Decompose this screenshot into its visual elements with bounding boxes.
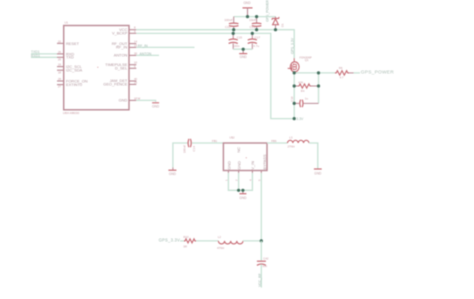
svg-text:D1: D1 [280, 23, 284, 27]
svg-text:C17: C17 [255, 35, 261, 39]
wire RF_IN [136, 46, 194, 48]
svg-text:100nF: 100nF [182, 145, 186, 154]
svg-text:GND: GND [226, 161, 231, 170]
wire U2 output to inductor [267, 142, 288, 144]
wire U1 GND pin to ground [136, 100, 155, 102]
capacitor C42 10u [257, 257, 269, 268]
svg-text:V_IN: V_IN [250, 161, 255, 170]
junction dots middle [237, 189, 244, 192]
wire V_BCKP rail from U1 pin 9 [136, 33, 294, 118]
svg-text:EXTINT0: EXTINT0 [66, 82, 83, 87]
svg-text:0R: 0R [183, 245, 187, 249]
svg-text:TXD: TXD [66, 55, 74, 60]
wire RXD1 to TXD pin [31, 56, 57, 58]
svg-text:ANTON: ANTON [140, 52, 152, 56]
wire Q1 drain to gate network node [294, 72, 335, 74]
svg-text:25: 25 [134, 80, 138, 84]
svg-text:C42: C42 [263, 257, 269, 261]
svg-text:UBX-M8030: UBX-M8030 [63, 111, 80, 115]
svg-text:26: 26 [58, 50, 62, 54]
svg-text:C13: C13 [249, 25, 255, 29]
svg-text:RF_IN: RF_IN [116, 45, 127, 50]
wire GND rail above caps [234, 16, 276, 18]
wire inductor to ground right [309, 143, 318, 169]
svg-text:1u: 1u [305, 97, 309, 101]
svg-text:GPS_3.3V: GPS_3.3V [291, 37, 295, 54]
svg-text:GND: GND [152, 104, 160, 108]
zener diode D1 [272, 17, 285, 30]
svg-text:GND: GND [236, 161, 241, 170]
ground symbol below U2 [239, 190, 247, 200]
svg-text:GND: GND [239, 196, 247, 200]
svg-text:28: 28 [58, 77, 62, 81]
capacitor C17 4.7u (backup bank) [248, 33, 261, 49]
inductor L2 47NH [217, 235, 243, 250]
svg-text:10nF: 10nF [249, 18, 256, 22]
svg-text:GND: GND [314, 171, 322, 175]
junction dots top section [232, 15, 321, 120]
ground symbol above cap bank (flipped) [243, 1, 253, 17]
IC U2 body [223, 135, 267, 170]
svg-text:GPS_POWER: GPS_POWER [266, 0, 270, 22]
svg-text:L3: L3 [289, 136, 293, 140]
svg-text:C18: C18 [290, 96, 294, 102]
svg-text:GPS_POWER: GPS_POWER [361, 69, 394, 75]
transistor Q1 P-MOSFET [288, 58, 299, 73]
svg-text:27NH: 27NH [288, 144, 295, 148]
wire GND bus of backup caps [233, 48, 252, 50]
wires U2 ground pins to bus [228, 173, 252, 190]
svg-text:GEO_FENCE: GEO_FENCE [103, 82, 127, 87]
inductor L3 27NH [288, 136, 309, 149]
svg-text:GPS_3.3V: GPS_3.3V [159, 238, 180, 243]
svg-text:19: 19 [58, 63, 62, 67]
svg-text:V_BCKP: V_BCKP [112, 31, 128, 36]
svg-text:GND: GND [243, 1, 251, 5]
wire junction down to C42 [260, 241, 262, 261]
svg-text:D_SEL: D_SEL [115, 66, 128, 71]
svg-text:C15: C15 [237, 35, 243, 39]
U1 right pin stubs [129, 30, 136, 101]
wire L2 to junction [243, 240, 261, 242]
wire R10 to L2 [196, 240, 218, 242]
svg-text:RF_IN: RF_IN [138, 44, 148, 48]
wire U2 VIN pin long vertical [260, 173, 262, 241]
svg-text:27: 27 [58, 85, 62, 89]
wire VCC rail from U1 pin 8 [136, 30, 294, 59]
U1 left pin numbers [58, 39, 62, 88]
U1 left pin names [66, 41, 88, 87]
U1 right pin numbers [134, 26, 141, 101]
resistor R4 47K [294, 80, 318, 93]
svg-text:3.3V: 3.3V [296, 117, 304, 121]
svg-text:18: 18 [58, 70, 62, 74]
resistor R6 4.7 series [335, 66, 354, 79]
svg-text:VCC_RF: VCC_RF [258, 273, 262, 287]
svg-text:10u: 10u [262, 264, 267, 268]
capacitor C13 10nF [249, 17, 261, 30]
capacitor C18 1u gate [290, 96, 319, 107]
U1 left pin stubs [57, 43, 64, 84]
wire middle input with ground drop [173, 143, 188, 168]
svg-text:100n: 100n [233, 44, 240, 48]
svg-text:+: + [97, 65, 99, 69]
svg-text:R10: R10 [183, 235, 189, 239]
ground symbol below backup caps [239, 49, 247, 59]
svg-text:U1: U1 [65, 21, 69, 25]
svg-text:25: 25 [58, 57, 62, 61]
capacitor C12 100nF [224, 17, 238, 30]
svg-text:100nF: 100nF [224, 18, 233, 22]
svg-text:U$2: U$2 [229, 135, 235, 139]
svg-text:47K: 47K [298, 80, 303, 84]
U2 bottom pin stubs [228, 171, 261, 173]
svg-text:47NH: 47NH [217, 246, 224, 250]
wire TXD1 to RXD pin [31, 53, 57, 55]
svg-text:GND: GND [119, 98, 128, 103]
ground symbol at U1 GND pin [152, 103, 160, 109]
U2 inside pin names rotated [226, 154, 267, 170]
svg-text:+: + [245, 156, 247, 160]
IC U1 u-blox GPS module body [63, 21, 129, 116]
svg-text:GND: GND [169, 172, 177, 176]
svg-text:C14: C14 [192, 146, 196, 152]
capacitor C14 100nF dc block [182, 139, 223, 154]
U1 right pin names [103, 27, 128, 103]
resistor R10 0R [183, 235, 196, 249]
junction dot VCC_RF node [260, 239, 263, 242]
wire ANTON [136, 54, 159, 56]
svg-text:22: 22 [58, 39, 62, 43]
capacitor C15 100n (backup bank) [229, 33, 243, 49]
wire to GPS_POWER label [354, 72, 361, 74]
ground symbol right of U2 [314, 169, 322, 175]
svg-text:FB1: FB1 [212, 139, 218, 143]
svg-text:C12: C12 [225, 25, 231, 29]
wire main 3.3V branch below Q1 [293, 73, 295, 119]
wire C42 down to VCC_RF label [260, 264, 262, 287]
svg-text:GND: GND [240, 55, 248, 59]
svg-text:RXD1: RXD1 [31, 54, 40, 58]
svg-text:BYPASS: BYPASS [262, 154, 267, 170]
svg-text:L2: L2 [218, 235, 222, 239]
svg-text:4.7: 4.7 [340, 76, 344, 80]
svg-text:NC: NC [236, 147, 241, 153]
svg-text:R6: R6 [339, 66, 343, 70]
svg-text:RESET: RESET [66, 41, 80, 46]
ground symbol middle left [168, 168, 176, 176]
svg-text:I2C_SDA: I2C_SDA [66, 68, 83, 73]
U2 bottom pin numbers rotated [224, 179, 261, 181]
svg-text:4.7u: 4.7u [253, 44, 259, 48]
wire gate pull network right branch [318, 73, 320, 104]
svg-text:R4: R4 [301, 89, 305, 93]
wire GPS_3.3V to R10 [180, 240, 184, 242]
svg-text:FB6: FB6 [271, 139, 277, 143]
svg-text:ANTON: ANTON [114, 53, 128, 58]
svg-text:Q1: Q1 [305, 58, 309, 62]
